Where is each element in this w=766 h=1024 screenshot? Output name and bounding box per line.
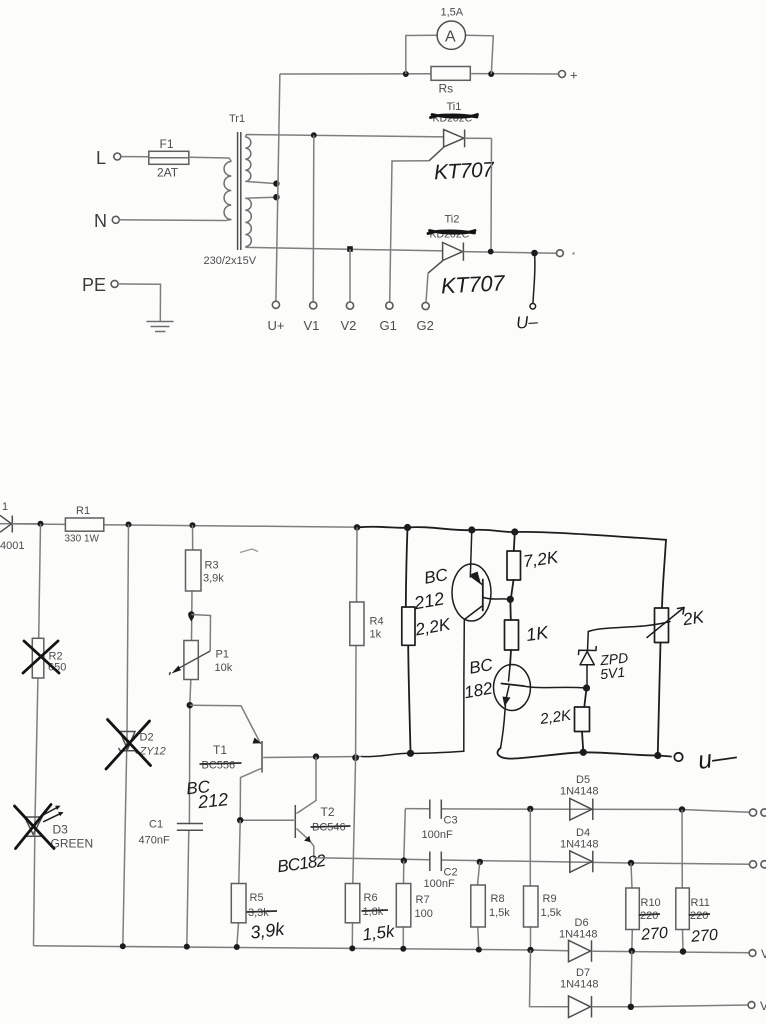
svg-text:D2: D2 bbox=[140, 732, 154, 744]
wire G1 gate lead bbox=[390, 161, 429, 302]
svg-text:BC: BC bbox=[468, 655, 495, 678]
svg-text:F1: F1 bbox=[160, 137, 174, 151]
svg-text:BC182: BC182 bbox=[276, 851, 327, 877]
wire bottom rail bbox=[34, 946, 569, 951]
node 2,2k mid bottom bbox=[407, 750, 414, 757]
svg-text:N: N bbox=[94, 211, 107, 231]
wire R11 branch bbox=[682, 810, 683, 952]
small arrow under node bbox=[188, 617, 194, 622]
wire R9 branch bbox=[529, 809, 531, 950]
diode D4 1N4148 bbox=[560, 827, 599, 872]
terminal out row1 bbox=[749, 809, 756, 816]
wire hand bottom rail to U- bbox=[497, 748, 671, 759]
svg-text:100: 100 bbox=[415, 908, 433, 920]
svg-text:1: 1 bbox=[2, 501, 8, 513]
capacitor C3 100nF bbox=[422, 800, 458, 842]
diode D7 1N4148 bbox=[560, 967, 599, 1018]
wire center tap lower bbox=[245, 197, 276, 198]
terminal V1 bbox=[304, 302, 320, 333]
terminal PE bbox=[82, 275, 118, 295]
wire R5 branch bbox=[237, 820, 240, 947]
node R8 top junction bbox=[477, 859, 483, 865]
svg-text:V1: V1 bbox=[304, 318, 320, 333]
node R9 top junction bbox=[527, 806, 533, 812]
wire ammeter bridge right bbox=[466, 35, 494, 74]
transistor T2 BC546 bbox=[240, 757, 350, 858]
svg-text:R10: R10 bbox=[641, 897, 661, 909]
svg-text:7,2K: 7,2K bbox=[522, 547, 560, 571]
svg-text:KT707: KT707 bbox=[433, 158, 495, 184]
terminal U- rail end bbox=[557, 250, 564, 257]
terminal V2 bbox=[341, 302, 357, 333]
node R4 bottom junction bbox=[352, 754, 359, 761]
wire R10 branch bbox=[631, 863, 632, 951]
wire D7 branch drop bbox=[530, 950, 569, 1007]
resistor R9 1,5k bbox=[524, 886, 562, 927]
node T1 collector / R5 junction bbox=[237, 817, 243, 823]
node rail/D2 bbox=[126, 522, 132, 528]
faint pen mark bbox=[240, 549, 258, 553]
resistor R7 100 bbox=[396, 884, 433, 928]
node U- tap bbox=[531, 250, 538, 257]
svg-text:D3: D3 bbox=[53, 823, 69, 837]
terminal U+ bbox=[268, 301, 285, 333]
wire center tap upper bbox=[245, 181, 276, 183]
resistor R6 1,8k bbox=[345, 884, 388, 923]
svg-text:1N4148: 1N4148 bbox=[559, 929, 598, 941]
resistor R1 330 1W bbox=[65, 505, 104, 545]
svg-text:GREEN: GREEN bbox=[51, 837, 94, 851]
resistor R10 220 -> 270 bbox=[626, 888, 661, 930]
svg-text:D4: D4 bbox=[576, 827, 590, 839]
svg-text:P1: P1 bbox=[216, 649, 229, 661]
node rail/R10 bottom bbox=[629, 948, 635, 954]
svg-text:KT707: KT707 bbox=[440, 270, 506, 298]
wire V1 drop bbox=[312, 135, 315, 302]
svg-text:2K: 2K bbox=[681, 607, 706, 629]
node Ti1/Ti2 cathodes junction bbox=[488, 249, 494, 255]
svg-text:1,5k: 1,5k bbox=[541, 907, 562, 919]
svg-text:D5: D5 bbox=[576, 774, 590, 786]
svg-text:R1: R1 bbox=[76, 505, 90, 517]
svg-text:u—: u— bbox=[696, 742, 739, 775]
node rail/R4 bbox=[354, 524, 360, 530]
resistor R11 220 -> 270 bbox=[676, 888, 710, 930]
node R3/P1 wiper junction bbox=[188, 611, 194, 617]
svg-text:R7: R7 bbox=[416, 894, 430, 906]
node rail/R11 bottom bbox=[680, 948, 686, 954]
wire Ti1 riser down to U- rail bbox=[490, 138, 493, 251]
svg-text:+: + bbox=[570, 68, 578, 83]
wire secondary top lead to Ti1 anode bbox=[245, 135, 443, 138]
node rail/R6 bottom bbox=[349, 945, 355, 951]
potentiometer P1 10k bbox=[169, 641, 232, 680]
zener ZPD 5V1 (hand) bbox=[579, 632, 597, 689]
svg-text:100nF: 100nF bbox=[424, 878, 455, 890]
wire 2,2k top lead bbox=[406, 528, 408, 608]
svg-text:1N4148: 1N4148 bbox=[560, 786, 599, 798]
svg-text:1,5k: 1,5k bbox=[489, 907, 510, 919]
resistor R2 650 (crossed out) bbox=[23, 638, 66, 678]
svg-text:BC556: BC556 bbox=[202, 760, 236, 772]
capacitor C2 100nF bbox=[424, 852, 458, 891]
wire hand feedback segment left bbox=[362, 751, 464, 756]
wire hand U- drop bbox=[533, 253, 535, 303]
svg-text:2,2K: 2,2K bbox=[538, 707, 573, 728]
node pot bottom bbox=[654, 752, 661, 759]
svg-text:V2: V2 bbox=[341, 318, 357, 333]
wire L to fuse bbox=[121, 156, 149, 158]
wire R7 branch bbox=[402, 861, 405, 949]
svg-text:R6: R6 bbox=[364, 892, 378, 904]
resistor 2,2k (hand, mid) bbox=[402, 607, 415, 753]
transformer Tr1 bbox=[204, 113, 257, 267]
svg-text:R11: R11 bbox=[691, 897, 710, 909]
resistor 2,2k (hand, right) bbox=[575, 707, 590, 752]
svg-text:212: 212 bbox=[412, 588, 446, 613]
wire Ti2 cathode to U- terminal bbox=[463, 252, 556, 254]
svg-text:3,3k: 3,3k bbox=[248, 907, 269, 919]
resistor R3 3,9k bbox=[186, 550, 225, 591]
svg-text:3,9k: 3,9k bbox=[203, 573, 224, 585]
wire R2 branch bbox=[34, 524, 41, 946]
svg-text:PE: PE bbox=[82, 275, 106, 295]
diode D5 1N4148 bbox=[560, 774, 599, 820]
svg-text:R8: R8 bbox=[491, 893, 505, 905]
svg-text:L: L bbox=[96, 148, 106, 168]
node R10 top junction bbox=[628, 860, 634, 866]
ground bbox=[147, 322, 174, 332]
svg-text:2AT: 2AT bbox=[157, 166, 179, 180]
wire U+ riser from Rs rail down to U+ terminal bbox=[276, 74, 280, 301]
wire hand rail right drop to pot bbox=[662, 540, 666, 608]
speck bbox=[572, 252, 574, 254]
resistor R8 1,5k bbox=[471, 885, 510, 927]
resistor 1K (hand) bbox=[505, 620, 519, 666]
wire 2,2k top lead (right) bbox=[584, 688, 586, 707]
wire ammeter bridge left bbox=[406, 35, 437, 74]
svg-text:10k: 10k bbox=[215, 662, 233, 674]
terminal U- (hand ring) bbox=[674, 753, 682, 761]
svg-text:D6: D6 bbox=[575, 917, 589, 929]
svg-text:220: 220 bbox=[640, 910, 658, 922]
svg-text:1K: 1K bbox=[525, 622, 551, 645]
wire hand top rail bbox=[360, 527, 666, 540]
svg-text:100nF: 100nF bbox=[422, 829, 453, 841]
svg-text:5V1: 5V1 bbox=[599, 664, 625, 683]
node Rs left bbox=[403, 71, 409, 77]
terminal L bbox=[96, 148, 121, 168]
svg-text:A: A bbox=[445, 29, 456, 46]
thyristor Ti1 bbox=[429, 101, 478, 161]
wire feedback line T1 base bbox=[263, 757, 362, 758]
svg-text:R9: R9 bbox=[543, 893, 557, 905]
svg-text:C1: C1 bbox=[149, 819, 163, 831]
node D7/R10-link junction bbox=[628, 1004, 634, 1010]
svg-text:220: 220 bbox=[690, 910, 708, 922]
svg-text:1,8k: 1,8k bbox=[363, 906, 384, 918]
node 2,2k right bottom bbox=[580, 749, 587, 756]
wire T2 emitter line / C2 rail bbox=[314, 858, 430, 860]
node rail/R2 bbox=[38, 521, 44, 527]
terminal G1 bbox=[380, 302, 397, 333]
terminal out row4 bbox=[748, 1002, 755, 1009]
svg-text:T2: T2 bbox=[321, 805, 335, 819]
svg-text:212: 212 bbox=[196, 789, 229, 812]
node rail/D2 bottom bbox=[120, 943, 126, 949]
wire R10 link down bbox=[631, 951, 632, 1007]
node center tap lower bbox=[273, 194, 279, 200]
node hand rail / BC212 emitter bbox=[468, 526, 475, 533]
terminal U- (hand ring) bbox=[530, 304, 536, 310]
wire R3/P1/C1 branch bbox=[189, 525, 192, 823]
svg-text:G1: G1 bbox=[380, 318, 397, 333]
wire C3 rail bbox=[405, 808, 430, 810]
svg-text:1N4148: 1N4148 bbox=[560, 839, 599, 851]
svg-text:2,2K: 2,2K bbox=[413, 615, 452, 640]
svg-text:BC: BC bbox=[423, 565, 450, 588]
svg-text:270: 270 bbox=[640, 925, 669, 944]
resistor 7,2k (hand) bbox=[507, 551, 521, 599]
svg-text:U–: U– bbox=[515, 312, 539, 333]
wire R8 branch bbox=[478, 862, 480, 950]
terminal G2 bbox=[417, 302, 434, 333]
svg-text:Tr1: Tr1 bbox=[229, 113, 245, 125]
zener D2 ZY12 (crossed out) bbox=[106, 720, 166, 770]
svg-text:C2: C2 bbox=[444, 867, 458, 879]
svg-text:V: V bbox=[761, 947, 766, 961]
wire secondary bottom lead to Ti2 anode bbox=[245, 247, 442, 251]
wire N to transformer primary bbox=[119, 220, 231, 221]
svg-text:230/2x15V: 230/2x15V bbox=[204, 255, 257, 267]
LED D3 GREEN (crossed out) bbox=[15, 805, 94, 851]
wire V2 drop bbox=[349, 249, 351, 302]
svg-text:Rs: Rs bbox=[439, 82, 454, 96]
ammeter A 1,5A bbox=[437, 7, 465, 50]
wire R6 branch bbox=[352, 758, 355, 949]
node rail/R8 bottom bbox=[476, 947, 482, 953]
wire fuse to transformer primary bbox=[189, 157, 232, 161]
svg-text:1,5k: 1,5k bbox=[361, 922, 397, 945]
wire 7,2k top lead bbox=[514, 532, 515, 551]
wire G2 gate lead bbox=[426, 273, 428, 302]
svg-text:U+: U+ bbox=[268, 318, 285, 333]
svg-text:1,5A: 1,5A bbox=[441, 7, 464, 19]
svg-text:G2: G2 bbox=[417, 318, 434, 333]
svg-text:R4: R4 bbox=[370, 616, 384, 628]
node base/7,2k/1K junction bbox=[507, 596, 514, 603]
transistor T1 BC556 bbox=[190, 705, 262, 820]
resistor R5 3,3k bbox=[231, 884, 277, 923]
svg-text:V: V bbox=[760, 999, 766, 1013]
svg-text:R5: R5 bbox=[250, 892, 264, 904]
thyristor Ti2 bbox=[428, 214, 475, 274]
svg-text:470nF: 470nF bbox=[139, 835, 170, 847]
resistor Rs bbox=[431, 67, 470, 96]
svg-text:330 1W: 330 1W bbox=[65, 534, 100, 545]
node rail/R5 bottom bbox=[234, 944, 240, 950]
wire PE to ground bbox=[118, 284, 160, 321]
svg-text:270: 270 bbox=[690, 927, 719, 946]
node P1 bottom / T1 emitter junction bbox=[187, 702, 193, 708]
node rail/R9 bottom / D7 tap bbox=[527, 947, 533, 953]
fuse F1 2AT bbox=[149, 137, 189, 180]
node V2 junction bbox=[347, 246, 353, 252]
node Rs right bbox=[488, 71, 494, 77]
wire D2 branch bbox=[123, 525, 129, 947]
svg-text:R3: R3 bbox=[205, 560, 219, 572]
transistor BC182 (hand) bbox=[494, 665, 587, 749]
diode D1 1N4001 (cut at page edge) bbox=[0, 501, 41, 552]
potentiometer 2K (hand) bbox=[647, 608, 684, 754]
node center tap upper bbox=[273, 180, 279, 186]
node V1 top junction bbox=[311, 132, 317, 138]
svg-text:1N4148: 1N4148 bbox=[560, 979, 599, 991]
transistor BC212 (hand) bbox=[452, 530, 510, 751]
node T2 collector junction bbox=[313, 753, 319, 759]
svg-text:4001: 4001 bbox=[0, 540, 24, 552]
node hand rail / 7,2k bbox=[511, 528, 518, 535]
node rail/R7 bottom bbox=[400, 946, 406, 952]
svg-text:Ti1: Ti1 bbox=[447, 101, 462, 113]
svg-text:C3: C3 bbox=[444, 815, 458, 827]
wire D7 to terminal bbox=[592, 1005, 749, 1007]
capacitor C1 470nF bbox=[139, 819, 204, 847]
terminal N bbox=[94, 211, 119, 231]
svg-text:182: 182 bbox=[463, 679, 495, 703]
node R11 top junction bbox=[679, 806, 685, 812]
node rail/C1 bottom bbox=[184, 944, 190, 950]
wire Rs to + terminal bbox=[470, 73, 558, 75]
wire 1K top lead bbox=[509, 599, 512, 620]
node BC182 base / zener junction bbox=[583, 684, 590, 691]
wire zener to pot wiper bbox=[588, 622, 670, 632]
wire C3 corner link bbox=[404, 809, 406, 861]
wire Ti1 cathode to riser bbox=[465, 137, 492, 139]
resistor R4 1k bbox=[350, 527, 384, 757]
svg-text:D7: D7 bbox=[576, 967, 590, 979]
wire P1 wiper link bbox=[191, 615, 210, 652]
terminal + output bbox=[559, 68, 578, 83]
node hand rail / 2,2k bbox=[404, 524, 411, 531]
node C3/R7 junction bbox=[401, 857, 407, 863]
svg-text:3,9k: 3,9k bbox=[249, 919, 286, 943]
svg-text:T1: T1 bbox=[213, 743, 227, 757]
terminal out row3 bbox=[749, 950, 756, 957]
diode D6 1N4148 (in bottom rail) bbox=[559, 917, 598, 962]
wire top rail (printed) bbox=[12, 524, 362, 527]
terminal out row2 bbox=[749, 861, 756, 868]
svg-text:1k: 1k bbox=[370, 629, 382, 641]
node rail/R3 bbox=[190, 522, 196, 528]
wire Rs rail bbox=[280, 73, 431, 75]
svg-text:Ti2: Ti2 bbox=[445, 214, 460, 226]
